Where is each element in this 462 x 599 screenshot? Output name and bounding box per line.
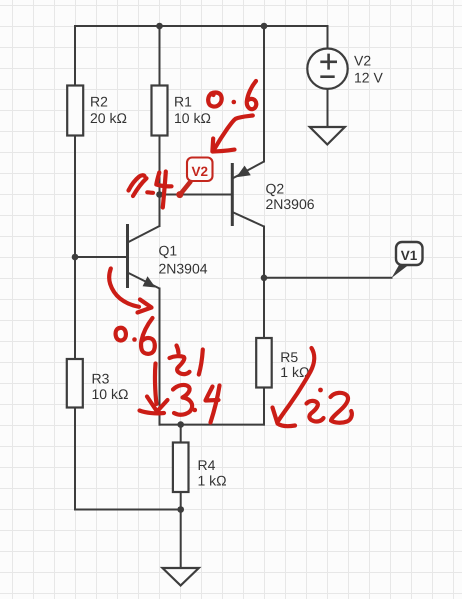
svg-text:12 V: 12 V xyxy=(354,70,383,86)
svg-text:Q1: Q1 xyxy=(159,243,178,259)
svg-text:V2: V2 xyxy=(192,164,209,179)
svg-text:R1: R1 xyxy=(174,93,192,109)
svg-text:1 kΩ: 1 kΩ xyxy=(198,472,227,488)
svg-text:10 kΩ: 10 kΩ xyxy=(174,110,211,126)
svg-text:R2: R2 xyxy=(90,93,108,109)
svg-text:2N3904: 2N3904 xyxy=(159,261,208,277)
svg-text:V1: V1 xyxy=(401,248,418,263)
svg-text:20 kΩ: 20 kΩ xyxy=(90,110,127,126)
svg-text:R3: R3 xyxy=(92,370,110,386)
svg-text:R5: R5 xyxy=(280,349,298,365)
svg-text:Q2: Q2 xyxy=(266,181,285,197)
svg-text:R4: R4 xyxy=(198,457,216,473)
svg-text:2N3906: 2N3906 xyxy=(266,196,315,212)
svg-text:V2: V2 xyxy=(354,53,371,69)
svg-text:10 kΩ: 10 kΩ xyxy=(92,386,129,402)
